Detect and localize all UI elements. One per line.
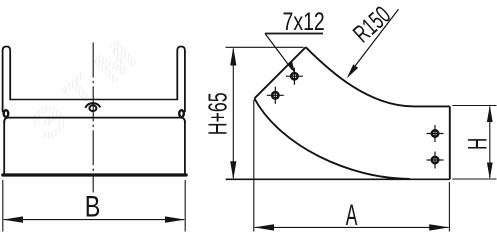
H up arrow	[487, 106, 493, 123]
label H+65	[203, 92, 232, 135]
body bottom thick edge	[3, 173, 186, 176]
svg-text:H+65: H+65	[203, 92, 232, 135]
bend top edge	[414, 105, 450, 107]
right wall bar	[177, 47, 185, 112]
B right extension line	[184, 180, 186, 232]
A right extension line	[448, 182, 450, 232]
H down arrow	[487, 163, 493, 180]
hole h1	[286, 68, 303, 85]
7x12 leader arrow	[288, 60, 295, 73]
left wall bottom curl	[4, 110, 9, 117]
bend inner arc	[254, 98, 410, 178]
7x12 underline	[265, 33, 323, 35]
rivet symbol	[85, 103, 100, 111]
watermark ЭТМ	[22, 23, 156, 151]
dimension H+65	[226, 47, 304, 179]
label H	[463, 138, 493, 150]
body left edge	[3, 121, 5, 175]
rivet head ellipse	[89, 105, 96, 111]
bend outer arc	[306, 47, 414, 106]
B left arrow	[3, 216, 23, 222]
dimension A	[254, 100, 450, 232]
B dimension line	[4, 219, 184, 221]
A left arrow	[254, 224, 274, 230]
H dimension line	[489, 107, 491, 179]
R150 leader	[350, 9, 398, 72]
svg-text:B: B	[85, 190, 101, 223]
rivet eyebrow arc	[85, 103, 100, 108]
A left extension line	[253, 100, 255, 232]
bend bottom edge	[226, 178, 450, 180]
A dimension line	[255, 226, 449, 228]
7x12 leader	[265, 34, 323, 70]
dimension H	[452, 106, 496, 180]
hole h2	[267, 87, 284, 104]
bottom edge extension to left	[226, 179, 252, 181]
svg-text:7x12: 7x12	[283, 7, 325, 35]
H+65 top extension line	[226, 46, 304, 48]
bend slant left edge	[254, 47, 305, 98]
svg-text:H: H	[463, 138, 493, 150]
label A	[346, 199, 358, 232]
label B	[85, 190, 101, 223]
label 7x12	[283, 7, 325, 35]
svg-text:A: A	[346, 199, 358, 232]
centerline	[92, 43, 94, 193]
body right edge	[184, 121, 186, 175]
label R150	[349, 2, 396, 49]
left wall bar	[3, 47, 11, 112]
B left extension line	[2, 180, 4, 232]
H+65 down arrow	[230, 161, 236, 179]
tray floor line	[10, 99, 177, 101]
H bottom extension line	[452, 178, 496, 180]
H+65 dimension line	[232, 49, 234, 179]
hole h4	[427, 152, 444, 169]
body top edge	[4, 118, 185, 123]
dimension B	[3, 180, 185, 232]
bend right edge	[449, 106, 451, 179]
hole h3	[427, 125, 444, 142]
H top extension line	[452, 105, 496, 107]
right wall bottom curl	[179, 110, 184, 117]
7x12 leader line	[265, 34, 292, 70]
B right arrow	[165, 216, 185, 222]
H+65 up arrow	[230, 47, 236, 65]
A right arrow	[429, 224, 449, 230]
R150 leader arrow	[347, 64, 358, 78]
